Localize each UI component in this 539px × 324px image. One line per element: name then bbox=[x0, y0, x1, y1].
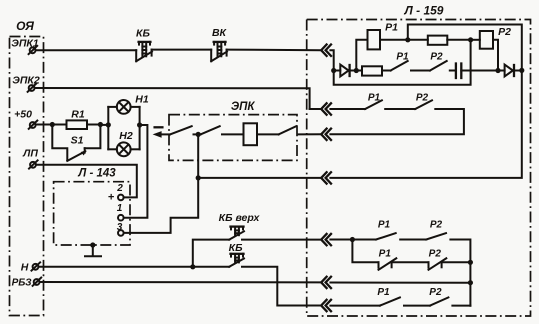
wire VD2 to node F bbox=[514, 70, 522, 72]
wire row7 to contact P1 bbox=[330, 305, 380, 307]
arrow to minus (ЭПК feed) bbox=[153, 131, 170, 138]
wire ЭПК tap node G down to row4 node L bbox=[197, 134, 199, 178]
node F junction bbox=[519, 68, 524, 73]
wire contact P2 to capacitor C1 bbox=[450, 70, 455, 72]
switch S1 bypass loop bbox=[52, 125, 100, 161]
svg-text:КБ: КБ bbox=[136, 27, 150, 39]
wire to node G bbox=[194, 133, 201, 135]
wire contact P1 to contact P2 bbox=[411, 70, 430, 72]
contact P1 (top section, NO) bbox=[391, 52, 409, 71]
svg-text:Р2: Р2 bbox=[429, 248, 442, 259]
wire node B up to relay coil P1 bbox=[356, 40, 367, 71]
contact P2 (top section, NO) bbox=[430, 52, 447, 71]
wire return rail node A to node D drop bbox=[334, 40, 471, 85]
wire R3 to contact P1 bbox=[382, 70, 391, 72]
svg-text:Р2: Р2 bbox=[430, 52, 443, 63]
lamp H1 bbox=[108, 94, 149, 114]
terminal Н bbox=[21, 261, 40, 273]
enclosure box OЯ (dash-dot) bbox=[10, 19, 44, 316]
wire КБ верх to connector row5 bbox=[242, 239, 321, 241]
lamp H2 bbox=[108, 130, 139, 156]
minus polarity mark bbox=[155, 126, 163, 128]
wire row6 to node P bbox=[330, 282, 470, 284]
lamp branch right rail bbox=[139, 107, 141, 149]
pushbutton ВК bbox=[211, 27, 227, 61]
pushbutton КБ (lower) bbox=[229, 242, 244, 267]
svg-text:Р1: Р1 bbox=[377, 287, 390, 298]
wire row3 out of box to ЭПК contact bbox=[299, 133, 322, 135]
wire row1 into Л-159, corner down to node A bbox=[330, 50, 333, 70]
wire node A to diode VD1 bbox=[334, 70, 341, 72]
block Л-143 box (dash-dot) bbox=[54, 168, 130, 246]
wire row4 to right rail up to node F bbox=[330, 70, 521, 177]
wire ЭПК2 row to box bbox=[35, 88, 310, 109]
svg-text:ЭПК: ЭПК bbox=[231, 101, 256, 113]
wire node B to resistor R3 bbox=[356, 70, 362, 72]
svg-text:Р2: Р2 bbox=[416, 92, 429, 103]
svg-text:2: 2 bbox=[116, 183, 123, 194]
contact ЭПК-2 (blade) bbox=[201, 126, 220, 134]
node K junction (lamp minus) bbox=[137, 122, 142, 127]
wire capacitor C1 to diode VD2 (crosses return drop) bbox=[461, 70, 504, 72]
pin 2 terminal bbox=[118, 195, 124, 201]
wire node C up and top bus to right vertical bbox=[408, 25, 522, 71]
relay coil P1 bbox=[368, 22, 399, 50]
node N junction bbox=[350, 237, 355, 242]
connector pin row1 (chevrons) bbox=[321, 45, 331, 56]
wire row7 to right rail bbox=[452, 305, 470, 307]
svg-text:Р1: Р1 bbox=[379, 248, 392, 259]
svg-text:Н2: Н2 bbox=[119, 130, 133, 142]
terminal РБЗ bbox=[12, 278, 42, 289]
ground (chassis) on Л-143 bbox=[85, 242, 101, 256]
node A junction bbox=[331, 68, 336, 73]
wire ЭПК1 row left segment bbox=[36, 49, 137, 51]
svg-text:Л - 143: Л - 143 bbox=[77, 168, 116, 180]
resistor R2 (coil row) bbox=[408, 36, 471, 45]
svg-text:ЛП: ЛП bbox=[22, 148, 38, 160]
node O junction bbox=[468, 260, 473, 265]
svg-text:Р2: Р2 bbox=[498, 26, 511, 38]
wire NC P1 to NC P2 bbox=[392, 261, 429, 263]
wire row5 to node N bbox=[330, 239, 352, 241]
wire РБЗ row to connector row6 bbox=[40, 281, 321, 283]
svg-text:+: + bbox=[108, 192, 115, 204]
lamp branch left rail bbox=[107, 107, 109, 149]
svg-text:ОЯ: ОЯ bbox=[16, 19, 34, 33]
svg-text:Р2: Р2 bbox=[429, 287, 442, 298]
wire contact P1 to contact P2 row7 bbox=[404, 305, 430, 307]
wire node K to terminal 1 of Л-143 bbox=[124, 125, 147, 218]
svg-text:Н1: Н1 bbox=[135, 94, 149, 106]
contact P2 (row7, NO) bbox=[429, 287, 448, 306]
wire row2 entry to contact P1 bbox=[310, 108, 322, 110]
pushbutton КБ (top) bbox=[136, 27, 152, 61]
contact P1 (break, NC) bbox=[379, 248, 397, 269]
node H junction bbox=[50, 122, 55, 127]
wire node D to relay coil P2 bbox=[471, 39, 480, 41]
connector pin row4 (chevrons) bbox=[321, 172, 331, 183]
svg-text:+50: +50 bbox=[14, 109, 32, 121]
wire +50 row to node H bbox=[36, 124, 53, 126]
wire row4 node L to connector bbox=[198, 177, 321, 179]
wire contact P1 to contact P2 row2 bbox=[385, 108, 415, 110]
node J junction bbox=[106, 122, 111, 127]
svg-text:1: 1 bbox=[117, 203, 123, 214]
svg-text:КБ: КБ bbox=[229, 242, 243, 254]
node D junction bbox=[468, 37, 473, 42]
contact ЭПК-1 (blade) bbox=[170, 126, 192, 134]
connector pin row2 (chevrons) bbox=[321, 103, 331, 114]
contact P1 (row7, NO) bbox=[377, 287, 400, 306]
wire node N down to НЗ row bbox=[352, 240, 378, 263]
wire Н row node M to pushbutton КБ (lower) bbox=[193, 266, 229, 268]
svg-text:РБЗ: РБЗ bbox=[12, 278, 33, 289]
diode VD2 bbox=[505, 65, 514, 77]
connector pin row3 (chevrons) bbox=[321, 129, 331, 140]
wire contact P1 to contact P2 row5 bbox=[400, 239, 426, 241]
wire node M up to pushbutton КБ верх bbox=[193, 240, 229, 267]
contact P1 (row2, NO) bbox=[365, 92, 382, 109]
valve block ЭПК box (dash-dot) bbox=[169, 101, 297, 160]
node L junction bbox=[196, 175, 201, 180]
wire coil to contact ЭПК-3 bbox=[257, 133, 279, 135]
terminal ЭПК1 bbox=[11, 38, 39, 55]
svg-text:Р1: Р1 bbox=[385, 22, 398, 34]
relay coil P2 bbox=[480, 26, 511, 49]
relay block Л-159 box (dash-dot) bbox=[307, 4, 531, 317]
diode VD1 bbox=[340, 65, 349, 77]
svg-text:Л - 159: Л - 159 bbox=[404, 4, 444, 18]
terminal ЛП bbox=[22, 148, 38, 169]
pin 3 terminal bbox=[118, 230, 124, 236]
node E junction bbox=[495, 68, 500, 73]
svg-text:Р2: Р2 bbox=[430, 219, 443, 230]
node P junction bbox=[468, 280, 473, 285]
wire node L down, step to terminal 3 of Л-143 bbox=[124, 178, 198, 233]
wire row2 to corner and down to row3 return bbox=[330, 109, 464, 134]
resistor R3 (diode row) bbox=[362, 66, 382, 75]
wire VD1 to node B bbox=[350, 70, 357, 72]
node G junction (ЭПК tap) bbox=[196, 132, 201, 137]
wire coil P1 to node C bbox=[380, 39, 408, 41]
wire to ЭПК coil bbox=[222, 133, 244, 135]
wire node I to lamp branch bbox=[100, 124, 108, 126]
connector pin row7 (chevrons) bbox=[321, 300, 331, 311]
wire row5 to right rail bbox=[450, 240, 470, 306]
svg-text:ВК: ВК bbox=[212, 27, 228, 39]
svg-text:Р1: Р1 bbox=[378, 219, 391, 230]
coil ЭПК bbox=[244, 123, 258, 145]
node I junction bbox=[98, 122, 103, 127]
wire ВК to connector row1 bbox=[227, 49, 322, 52]
contact P2 (row5, NO) bbox=[426, 219, 446, 239]
svg-text:R1: R1 bbox=[71, 109, 85, 121]
wire between КБ and ВК bbox=[152, 49, 212, 51]
svg-text:КБ верх: КБ верх bbox=[219, 212, 261, 224]
node M junction bbox=[190, 264, 195, 269]
node C junction bbox=[405, 37, 410, 42]
resistor R1 bbox=[52, 109, 100, 129]
connector pin row6 (chevrons) bbox=[321, 277, 331, 288]
node B junction bbox=[354, 68, 359, 73]
capacitor C1 bbox=[456, 64, 461, 79]
contact P2 (break, NC) bbox=[429, 248, 447, 269]
terminal +50 bbox=[14, 109, 37, 129]
svg-text:S1: S1 bbox=[71, 134, 84, 146]
svg-text:Н: Н bbox=[21, 261, 29, 273]
wire NC row to right rail node O bbox=[442, 261, 471, 263]
wire ЛП to terminal 2 of Л-143 bbox=[37, 165, 137, 198]
terminal ЭПК2 bbox=[12, 74, 40, 92]
pushbutton КБ верх bbox=[219, 212, 261, 240]
wire КБ output down to row7 bbox=[242, 267, 321, 306]
connector pin row5 (chevrons) bbox=[321, 234, 331, 245]
contact P1 (row5, NO) bbox=[376, 219, 396, 239]
contact P2 (row2, NO) bbox=[415, 92, 432, 109]
wire coil P2 down to node E bbox=[493, 40, 498, 71]
wire Н row to node M bbox=[39, 266, 193, 268]
contact ЭПК-3 (blade) bbox=[279, 126, 297, 134]
wire node N to contact P1 row5 bbox=[352, 239, 376, 241]
pin 1 terminal bbox=[118, 215, 124, 221]
